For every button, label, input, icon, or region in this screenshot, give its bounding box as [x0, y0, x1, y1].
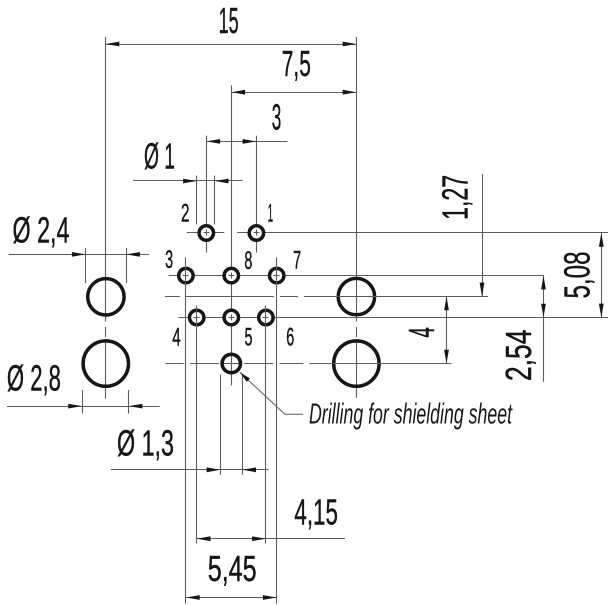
dimension 4 label — [401, 327, 442, 338]
pin label 4 — [172, 325, 181, 352]
svg-text:6: 6 — [286, 325, 294, 352]
pin label 1 — [268, 201, 274, 228]
extension line hole 7 down — [276, 258, 278, 604]
dimension 15 label — [219, 0, 239, 41]
pin label 7 — [293, 248, 301, 275]
svg-text:15: 15 — [219, 0, 239, 41]
extension line hole 6 down — [265, 306, 267, 544]
dimension Ø1 line — [133, 179, 243, 184]
shield row center line (dash-dot) — [165, 363, 454, 365]
svg-text:4: 4 — [172, 325, 181, 352]
svg-text:Drilling for shielding sheet: Drilling for shielding sheet — [309, 398, 513, 430]
svg-text:1,27: 1,27 — [435, 175, 476, 220]
leader line shielding note — [240, 372, 303, 414]
pin label 2 — [181, 201, 190, 228]
extension line hole 2 — [206, 136, 208, 253]
dimension Ø2,4 label — [13, 210, 70, 251]
pin label 5 — [245, 325, 253, 352]
extension line hole 3 down — [185, 258, 187, 604]
pin hole 1 — [249, 226, 263, 240]
dimension Ø1,3 label — [117, 423, 174, 464]
dimension 15 line — [106, 42, 357, 47]
vertical center axis — [231, 86, 233, 386]
dimension 4,15 label — [294, 492, 338, 533]
svg-text:Ø 1,3: Ø 1,3 — [117, 423, 174, 464]
pin hole 2 — [199, 226, 213, 240]
hole C Ø2,4 right — [338, 278, 374, 314]
centerline right circles (ext of dim 15) — [356, 37, 358, 398]
pin hole 5 — [224, 310, 238, 324]
row 3 center line — [178, 317, 608, 319]
svg-text:1: 1 — [268, 201, 274, 228]
dimension Ø2,8 label — [7, 358, 61, 399]
dimension 5,08 label — [557, 252, 598, 299]
dimension Ø1 label — [144, 135, 175, 176]
horizontal center axis (dash-dot) — [165, 296, 489, 298]
hole A Ø2,4 left — [88, 279, 124, 315]
dimension 2,54 line — [541, 276, 546, 382]
dimension 5,08 line — [599, 233, 604, 318]
pin label 6 — [286, 325, 294, 352]
hole B Ø2,8 left — [83, 341, 128, 386]
extension line hole 4 down — [196, 306, 198, 544]
dimension 5,45 line — [186, 595, 277, 600]
svg-text:Ø 1: Ø 1 — [144, 135, 175, 176]
dimension 3 line — [206, 139, 287, 144]
extension lines Ø2,8 — [83, 390, 129, 414]
svg-text:2,54: 2,54 — [498, 330, 539, 382]
centerline left circles (ext of dim 15) — [105, 37, 107, 399]
dimension 1,27 line — [480, 174, 485, 296]
svg-text:8: 8 — [244, 248, 252, 275]
dimension 4 line — [444, 296, 449, 363]
svg-text:5: 5 — [245, 325, 253, 352]
pin hole 8 — [224, 268, 238, 282]
dimension 5,45 label — [208, 548, 257, 589]
dimension 4,15 line — [197, 536, 345, 541]
dimension 7,5 line — [231, 90, 356, 95]
svg-text:7,5: 7,5 — [282, 43, 311, 84]
row 2 center line — [169, 275, 544, 277]
dimension Ø1,3 line — [111, 467, 269, 472]
dimension Ø2,8 line — [7, 404, 160, 409]
shielding sheet hole — [222, 354, 240, 372]
row 1 center line — [187, 232, 608, 234]
svg-text:4: 4 — [401, 327, 442, 338]
pin hole 4 — [190, 310, 204, 324]
dimension 2,54 label — [498, 330, 539, 382]
svg-text:Ø 2,4: Ø 2,4 — [13, 210, 70, 251]
dimension 1,27 label — [435, 175, 476, 220]
extension lines shield hole diameter — [221, 375, 243, 475]
extension lines hole 2 diameter — [197, 176, 215, 225]
pin hole 7 — [270, 268, 284, 282]
pin label 8 — [244, 248, 252, 275]
svg-text:7: 7 — [293, 248, 301, 275]
hole D Ø2,8 right — [334, 341, 379, 386]
svg-text:3: 3 — [165, 247, 173, 274]
dimension Ø2,4 line — [9, 252, 149, 257]
note text — [309, 398, 513, 430]
pin hole 3 — [179, 268, 193, 282]
extension line hole 1 — [256, 136, 258, 253]
svg-text:Ø 2,8: Ø 2,8 — [7, 358, 61, 399]
extension lines Ø2,4 — [86, 248, 127, 283]
svg-text:5,08: 5,08 — [557, 252, 598, 299]
svg-text:2: 2 — [181, 201, 190, 228]
pin hole 6 — [259, 310, 273, 324]
svg-text:4,15: 4,15 — [294, 492, 338, 533]
dimension 7,5 label — [282, 43, 311, 84]
svg-text:3: 3 — [272, 97, 282, 138]
dimension 3 label — [272, 97, 282, 138]
svg-text:5,45: 5,45 — [208, 548, 257, 589]
pin label 3 — [165, 247, 173, 274]
